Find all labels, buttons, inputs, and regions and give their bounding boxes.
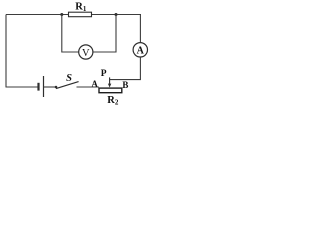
battery cell <box>39 76 44 97</box>
wire voltmeter branch right <box>93 15 116 53</box>
slider P arrow <box>108 77 111 87</box>
wire switch to rheostat <box>77 86 99 88</box>
switch S <box>55 82 79 89</box>
svg-text:A: A <box>91 79 98 89</box>
ammeter A <box>133 43 147 57</box>
rheostat R2 <box>99 88 122 93</box>
resistor R1 <box>69 12 92 17</box>
wire battery to switch <box>44 86 56 88</box>
wire voltmeter branch left <box>62 15 79 53</box>
voltmeter V <box>79 45 93 59</box>
svg-text:A: A <box>137 46 145 57</box>
svg-text:B: B <box>122 80 128 90</box>
svg-text:S: S <box>66 73 72 84</box>
svg-text:V: V <box>82 48 90 59</box>
node junction right <box>115 13 118 16</box>
wire top <box>6 14 141 16</box>
node junction left <box>60 13 63 16</box>
wire ammeter lower to slider <box>110 57 141 79</box>
svg-text:P: P <box>101 69 107 79</box>
wire bottom left <box>6 86 39 88</box>
wire left vertical <box>5 15 7 88</box>
wire ammeter upper <box>139 15 141 43</box>
